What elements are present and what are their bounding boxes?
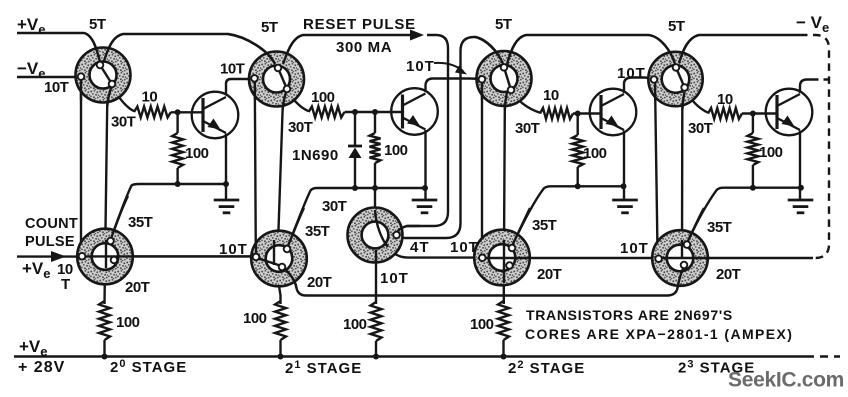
- label 20T core T8: [716, 266, 741, 283]
- wire reset core T9 windings: [375, 210, 420, 262]
- label 30T core T9: [322, 198, 347, 215]
- node Q3 emitter: [621, 183, 627, 189]
- terminal core T4 10T: [651, 76, 658, 83]
- svg-text:30T: 30T: [322, 198, 347, 215]
- wire R9 to emitter line: [752, 165, 754, 188]
- wire dashed Q4 collector to -Ve rail: [812, 78, 828, 80]
- wire COUNT PULSE input: [17, 255, 80, 257]
- terminal core T3 5T: [501, 64, 508, 71]
- wire Q2 collector to core T3 (10T): [426, 79, 483, 93]
- svg-text:100: 100: [243, 310, 267, 327]
- core T2 (2^1 set core): [249, 52, 304, 107]
- svg-text:RESET PULSE: RESET PULSE: [303, 16, 416, 33]
- terminal core T7 20T: [506, 262, 513, 269]
- label RESET PULSE: [303, 16, 416, 33]
- wire +28V rail: [14, 355, 806, 357]
- wire count through core T8: [659, 240, 710, 259]
- resistor R5 100 (stage 1 bottom): [99, 301, 110, 340]
- svg-text:35T: 35T: [128, 214, 153, 231]
- wire core T5 35T to Q1 emitter line: [111, 184, 227, 240]
- wire R3 to Q2 base: [345, 111, 403, 113]
- label 10 resistor R1: [142, 89, 158, 106]
- terminal core T2 10T: [251, 75, 258, 82]
- svg-text:20T: 20T: [537, 266, 562, 283]
- wire core T3 30T return down through core T7 to resistor R12: [504, 92, 507, 304]
- transistor Q3 2N697: [590, 89, 637, 136]
- svg-text:5T: 5T: [495, 16, 512, 33]
- terminal core T8 10T: [655, 255, 662, 262]
- label 10 resistor R6: [543, 87, 559, 104]
- wire core T4 30T return down into core T8: [682, 92, 685, 265]
- terminal core T9 4T: [393, 232, 400, 239]
- ground Q3: [612, 200, 638, 213]
- arrowhead COUNT PULSE: [51, 251, 66, 262]
- wire Q2 emitter to ground: [424, 130, 426, 201]
- wire core T2 30T to resistor R3: [287, 90, 309, 111]
- wire reset line from core T9 (4T) up to core T3 (5T): [397, 37, 504, 238]
- svg-text:10T: 10T: [406, 58, 435, 75]
- svg-text:1N690: 1N690: [292, 147, 339, 164]
- wire 10T through core T4 band: [655, 82, 685, 110]
- resistor R7 100 (Q3): [572, 135, 583, 167]
- label 100 resistor R12: [470, 316, 494, 333]
- label 20T core T6: [307, 274, 332, 291]
- label 10T core T6: [219, 241, 248, 258]
- core T1 (2^0 set core): [76, 48, 131, 103]
- terminal core T7 35T: [509, 245, 516, 252]
- svg-text:10: 10: [543, 87, 559, 104]
- core T5 (2^0 count core): [77, 229, 133, 285]
- svg-text:5T: 5T: [261, 19, 278, 36]
- svg-text:+ 28V: + 28V: [18, 359, 65, 376]
- wire Q3 base node to resistor R7: [577, 114, 579, 136]
- wire 10T through core T2 band: [255, 81, 286, 110]
- svg-text:10T: 10T: [44, 79, 69, 96]
- svg-text:100: 100: [384, 142, 408, 159]
- label 100 resistor R5: [116, 314, 140, 331]
- wire 10T through core T1 band: [81, 79, 111, 107]
- label 35T core T8: [707, 219, 732, 236]
- label 10T Q2 collector: [406, 58, 435, 75]
- label 100 resistor R2: [185, 145, 209, 162]
- label -Ve (top right): [796, 13, 829, 35]
- node rail R10: [278, 354, 284, 360]
- wire R4 to node A: [374, 163, 376, 188]
- node Q2 base-CR1: [352, 109, 358, 115]
- wire R10 to +28V rail: [279, 340, 281, 357]
- resistor R2 100 (Q1): [172, 133, 183, 168]
- label 20T core T7: [537, 266, 562, 283]
- label 35T core T7: [532, 217, 557, 234]
- wire 35T exit core T6: [288, 208, 305, 247]
- node Q4 base: [750, 111, 756, 117]
- ground Q2: [412, 200, 438, 213]
- wire core T6 35T to Q2 emitter line: [288, 188, 426, 247]
- wire Q1 base node to resistor R2: [176, 112, 178, 133]
- arrowhead 10T leader to core T3: [434, 63, 467, 75]
- node Q1 base: [175, 109, 181, 115]
- transistor Q4 2N697: [766, 89, 813, 136]
- terminal core T3 30T: [508, 87, 515, 94]
- label 5T core T2: [261, 19, 278, 36]
- wire count into core T6: [256, 240, 280, 266]
- ground Q1: [214, 200, 240, 213]
- core T4 (2^3 set core): [648, 52, 702, 106]
- svg-text:10: 10: [717, 91, 733, 108]
- wire core T7 35T to Q3 emitter line: [512, 186, 624, 246]
- svg-text:100: 100: [759, 144, 783, 161]
- terminal core T8 20T: [681, 262, 688, 269]
- svg-text:CORES ARE XPA−2801-1 (AMPEX): CORES ARE XPA−2801-1 (AMPEX): [525, 326, 793, 342]
- wire Q2 base node to resistor R4: [374, 112, 376, 133]
- label 100 resistor R4: [384, 142, 408, 159]
- label T (count 10T): [61, 276, 70, 293]
- label 1N690 diode CR1: [292, 147, 339, 164]
- note TRANSISTORS ARE 2N697'S: [526, 307, 733, 323]
- svg-text:30T: 30T: [515, 120, 540, 137]
- label 30T core T2: [288, 119, 313, 136]
- wire R6 to Q3 base: [573, 112, 601, 114]
- node Q4 emitter: [798, 185, 804, 191]
- wire reset core T9 10T to resistor R11: [375, 250, 377, 304]
- wire R7 to emitter line: [577, 167, 579, 186]
- node Q1 emitter: [223, 181, 229, 187]
- wire node A to reset core T9 (30T) through to core T7 (10T): [375, 188, 480, 258]
- wire R12 to +28V rail: [502, 340, 504, 357]
- label 5T core T4: [668, 18, 685, 35]
- wire core T4 10T down to core T8: [655, 82, 659, 259]
- resistor R12 100 (stage 3 bottom): [498, 301, 509, 340]
- resistor R3 100 (Q2 base): [309, 107, 345, 118]
- label 100 resistor R10: [243, 310, 267, 327]
- label 5T core T3: [495, 16, 512, 33]
- node Q3 emitter-R7: [575, 183, 581, 189]
- wire reset dip in core T2: [228, 34, 303, 64]
- svg-text:100: 100: [583, 145, 607, 162]
- svg-text:20T: 20T: [125, 279, 150, 296]
- terminal core T6 20T: [279, 264, 286, 271]
- terminal core T2 30T: [284, 86, 291, 93]
- svg-text:10T: 10T: [219, 241, 248, 258]
- terminal core T5 10T: [79, 253, 86, 260]
- wire R8 to Q4 base: [742, 112, 777, 114]
- wire reset dip in core T1: [84, 33, 123, 62]
- watermark SeekIC.com: [728, 369, 844, 392]
- svg-text:10: 10: [142, 89, 158, 106]
- wire core T2 10T down to core T6: [255, 81, 256, 253]
- label 10 resistor R8: [717, 91, 733, 108]
- resistor R1 10 (Q1 base): [134, 107, 171, 118]
- svg-text:35T: 35T: [305, 223, 330, 240]
- svg-text:100: 100: [116, 314, 140, 331]
- core T3 (2^2 set core): [477, 51, 532, 106]
- node A (R4/core T9): [372, 185, 378, 191]
- terminal core T4 5T: [673, 64, 680, 71]
- svg-text:35T: 35T: [707, 219, 732, 236]
- label 10T core T1: [44, 79, 69, 96]
- wire count line inside core T6: [257, 258, 280, 266]
- node rail R11: [373, 354, 379, 360]
- wire reset line core T2 exit to reset-pulse arrow: [283, 35, 411, 64]
- wire core T1 30T return down through core T5 to resistor R5: [105, 88, 112, 304]
- wire core T1 30T to resistor R1: [112, 85, 134, 111]
- wire core T8 35T to Q4 emitter line: [687, 188, 801, 243]
- wire reset line core T3 to core T4 (5T): [507, 35, 675, 64]
- wire winding diagonal core T3: [504, 67, 511, 90]
- terminal core T6 10T: [253, 254, 260, 261]
- label 100 resistor R7: [583, 145, 607, 162]
- svg-text:5T: 5T: [668, 18, 685, 35]
- arrowhead RESET PULSE: [410, 30, 424, 41]
- svg-text:10T: 10T: [220, 61, 245, 78]
- wire Q1 emitter to ground: [225, 134, 227, 202]
- wire 35T exit core T5: [111, 196, 129, 240]
- resistor R6 10 (Q3 base): [540, 108, 573, 119]
- label 300 MA: [336, 39, 392, 56]
- wire Q4 emitter to ground: [799, 131, 801, 202]
- wire +Ve reset line into core T1 (5T): [17, 33, 100, 62]
- diode CR1 1N690: [348, 146, 362, 158]
- wire 20T link core T6 to core T8: [282, 266, 685, 296]
- wire reset line core T1 to core T2 (5T): [104, 34, 275, 64]
- label PULSE: [25, 234, 75, 250]
- label +Ve (bottom rail): [19, 337, 48, 359]
- label 100 resistor R9: [759, 144, 783, 161]
- wire reset line descending to reset core T9 (4T): [397, 35, 449, 233]
- svg-text:10T: 10T: [617, 65, 646, 82]
- wire core T3 30T to resistor R6: [511, 91, 540, 113]
- wire core T2 30T return down through core T6 to resistor R10: [278, 92, 286, 304]
- svg-text:30T: 30T: [288, 119, 313, 136]
- label +28V: [18, 359, 65, 376]
- wire count through core T7: [482, 240, 530, 283]
- wire 10T through core T3 band: [482, 82, 507, 110]
- label +Ve (top left): [17, 15, 46, 37]
- label 35T core T6: [305, 223, 330, 240]
- core T9 (reset core): [348, 208, 403, 263]
- node Q1 emitter-R2: [175, 181, 181, 187]
- svg-text:10T: 10T: [450, 239, 479, 256]
- svg-text:10T: 10T: [380, 270, 409, 287]
- label 2^3 STAGE: [678, 359, 755, 377]
- label COUNT: [25, 216, 78, 232]
- label 10T core T7 input: [450, 239, 479, 256]
- transistor Q2 2N697: [391, 88, 438, 135]
- resistor R8 10 (Q4 base): [708, 108, 742, 119]
- terminal core T1 5T: [97, 62, 104, 69]
- svg-text:20T: 20T: [307, 274, 332, 291]
- wire dashed -Ve return (right side): [800, 35, 829, 258]
- wire count line through core T5 to core T6 (10T): [83, 255, 254, 257]
- wire +28V rail dashed end: [806, 355, 840, 357]
- label 20T core T5: [125, 279, 150, 296]
- core T8 (2^3 count core): [652, 230, 708, 286]
- node CR1 anode: [352, 185, 358, 191]
- wire R2 to emitter line: [176, 168, 178, 184]
- terminal core T6 35T: [284, 246, 291, 253]
- transistor Q1 2N697: [192, 92, 239, 139]
- wire winding diagonal core T1: [100, 65, 112, 84]
- wire winding diagonal core T4: [676, 68, 685, 88]
- wire Q4 collector to dashed output: [800, 80, 812, 94]
- label -Ve (left): [17, 59, 46, 81]
- label 10T core T9 bottom: [380, 270, 409, 287]
- core T6 (2^1 count core): [251, 231, 307, 287]
- label 100 resistor R11: [343, 316, 367, 333]
- svg-text:SeekIC.com: SeekIC.com: [728, 369, 844, 392]
- wire core T4 30T to resistor R8: [685, 88, 708, 113]
- label 100 resistor R3: [311, 89, 335, 106]
- wire R1 to Q1 base: [171, 111, 203, 113]
- label 2^0 STAGE: [110, 358, 187, 376]
- terminal core T1 30T: [109, 81, 116, 88]
- svg-text:PULSE: PULSE: [25, 234, 75, 250]
- svg-text:100: 100: [470, 316, 494, 333]
- wire Q1 collector to core T2 (10T): [226, 79, 254, 95]
- wire 20T exit core T6: [282, 267, 297, 288]
- label 35T core T5: [128, 214, 153, 231]
- core T7 (2^2 count core): [474, 230, 530, 286]
- label 2^2 STAGE: [508, 359, 585, 377]
- svg-text:100: 100: [311, 89, 335, 106]
- wire count line through core T7 and core T8 (10T): [482, 257, 813, 259]
- wire Q2 base node to diode CR1: [354, 112, 356, 146]
- wire reset dip in core T4: [649, 35, 699, 64]
- terminal core T1 10T: [78, 73, 85, 80]
- wire Q3 emitter to ground: [623, 131, 625, 202]
- terminal core T5 35T: [107, 238, 114, 245]
- node Q2 base-R4: [372, 109, 378, 115]
- label 5T core T1: [89, 16, 106, 33]
- terminal core T2 5T: [275, 65, 282, 72]
- resistor R4 100 (Q2): [370, 133, 381, 163]
- svg-text:5T: 5T: [89, 16, 106, 33]
- wire R5 to +28V rail: [103, 340, 105, 357]
- wire 35T exit core T8: [687, 208, 704, 243]
- wire Q4 base node to resistor R9: [752, 114, 754, 134]
- wire count through core T5: [83, 240, 254, 268]
- svg-text:35T: 35T: [532, 217, 557, 234]
- svg-text:10T: 10T: [620, 240, 649, 257]
- svg-text:100: 100: [185, 145, 209, 162]
- resistor R10 100 (stage 2 bottom): [275, 301, 286, 340]
- svg-text:TRANSISTORS ARE 2N697'S: TRANSISTORS ARE 2N697'S: [526, 307, 733, 323]
- label 10T Q3 collector: [617, 65, 646, 82]
- label 10T core T8 input: [620, 240, 649, 257]
- label 4T core T9: [410, 239, 430, 256]
- resistor R9 100 (Q4): [747, 133, 758, 165]
- wire R11 to +28V rail: [375, 341, 377, 357]
- terminal core T3 10T: [479, 76, 486, 83]
- svg-text:4T: 4T: [410, 239, 430, 256]
- svg-text:COUNT: COUNT: [25, 216, 78, 232]
- wire core T3 10T down to core T7: [481, 82, 483, 254]
- wire 35T exit core T7: [512, 208, 530, 246]
- resistor R11 100 (reset core): [371, 302, 382, 341]
- terminal core T7 10T: [479, 254, 486, 261]
- node rail R12: [501, 354, 507, 360]
- label 10 (count 10T): [57, 261, 73, 278]
- svg-text:300 MA: 300 MA: [336, 39, 392, 56]
- note CORES ARE XPA-2801-1 (AMPEX): [525, 326, 793, 342]
- wire winding diagonal core T2: [278, 68, 287, 89]
- label 30T core T1: [111, 114, 136, 131]
- wire CR1 anode to emitter line: [354, 158, 356, 188]
- wire 20T exit core T8: [678, 266, 686, 289]
- svg-text:T: T: [61, 276, 70, 293]
- svg-text:30T: 30T: [688, 120, 713, 137]
- svg-text:100: 100: [343, 316, 367, 333]
- wire -Ve input to core T1 (10T): [17, 76, 78, 78]
- label 2^1 STAGE: [285, 359, 362, 377]
- terminal core T4 30T: [681, 84, 688, 91]
- label 10T Q1 collector: [220, 61, 245, 78]
- label 30T core T4: [688, 120, 713, 137]
- label 30T core T3: [515, 120, 540, 137]
- wire Q3 collector to core T4 (10T): [624, 78, 654, 94]
- terminal core T5 20T: [111, 257, 118, 264]
- svg-text:20T: 20T: [716, 266, 741, 283]
- node Q4 emitter-R9: [750, 185, 756, 191]
- node Q3 base: [575, 111, 581, 117]
- node rail R5: [102, 354, 108, 360]
- terminal core T8 35T: [684, 241, 691, 248]
- svg-text:30T: 30T: [111, 114, 136, 131]
- wire core T1 10T down to core T5: [80, 79, 82, 253]
- wire reset dip in core T3: [475, 35, 526, 64]
- wire reset line core T4 exit toward -Ve: [679, 35, 800, 63]
- node Q2 emitter: [422, 185, 428, 191]
- label +Ve (count input): [22, 259, 51, 281]
- ground Q4: [788, 200, 814, 213]
